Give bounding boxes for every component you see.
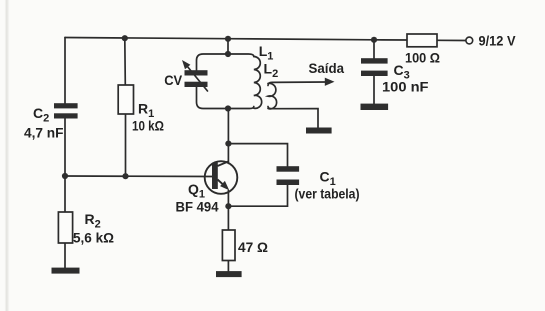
svg-text:(ver tabela): (ver tabela) [295,186,360,202]
svg-text:47 Ω: 47 Ω [238,239,268,255]
svg-text:CV: CV [164,72,183,88]
svg-text:4,7 nF: 4,7 nF [24,125,64,141]
svg-text:10 kΩ: 10 kΩ [132,118,164,134]
svg-text:100 nF: 100 nF [382,79,429,95]
svg-text:Saída: Saída [309,60,345,76]
svg-text:9/12 V: 9/12 V [479,33,517,49]
svg-text:100 Ω: 100 Ω [405,50,440,66]
svg-text:5,6 kΩ: 5,6 kΩ [73,230,114,246]
svg-text:BF 494: BF 494 [176,199,219,215]
